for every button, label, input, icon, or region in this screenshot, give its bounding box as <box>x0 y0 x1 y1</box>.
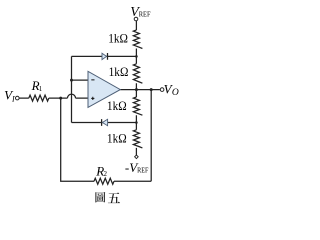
svg-text:1kΩ: 1kΩ <box>107 99 127 113</box>
svg-text:1kΩ: 1kΩ <box>107 132 127 146</box>
svg-text:1kΩ: 1kΩ <box>108 32 128 46</box>
svg-text:1kΩ: 1kΩ <box>109 65 129 79</box>
